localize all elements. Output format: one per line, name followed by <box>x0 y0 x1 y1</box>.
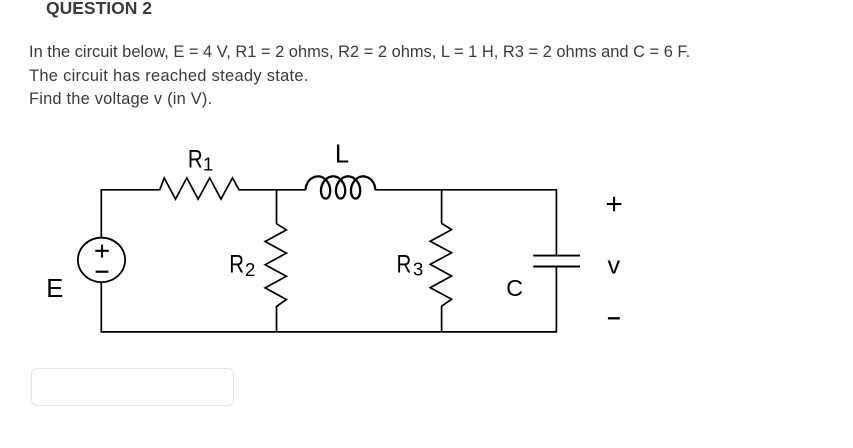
svg-text:R: R <box>397 250 412 278</box>
svg-text:L: L <box>335 141 349 169</box>
svg-text:2: 2 <box>245 259 255 280</box>
svg-text:R: R <box>188 146 203 174</box>
svg-text:E: E <box>46 275 63 303</box>
svg-text:v: v <box>608 252 621 279</box>
svg-text:1: 1 <box>203 154 213 175</box>
svg-text:3: 3 <box>413 259 423 280</box>
svg-text:C: C <box>506 275 523 301</box>
svg-text:R: R <box>229 250 244 278</box>
